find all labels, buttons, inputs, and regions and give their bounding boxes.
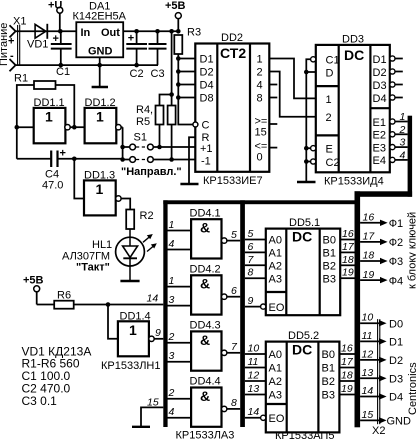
svg-text:DD4.4: DD4.4: [190, 376, 221, 388]
DD4.1 inputs: [168, 231, 192, 250]
svg-text:DD4.2: DD4.2: [190, 264, 221, 276]
svg-text:1: 1: [169, 275, 175, 287]
svg-text:4: 4: [169, 238, 175, 250]
svg-text:C3: C3: [151, 68, 165, 80]
svg-text:3: 3: [400, 137, 406, 149]
svg-text:DD1.2: DD1.2: [85, 97, 116, 109]
svg-text:5: 5: [248, 228, 254, 240]
svg-text:E3: E3: [373, 142, 386, 154]
bus labels 1 2 3 4: [399, 111, 406, 161]
DD3 pin labels left: [326, 55, 340, 170]
svg-text:18: 18: [341, 370, 353, 382]
svg-text:13: 13: [248, 383, 260, 395]
svg-text:D: D: [326, 68, 334, 80]
DD4.4 inputs: [168, 399, 192, 418]
svg-text:C1: C1: [326, 55, 340, 67]
bus horizontal main: [163, 200, 356, 204]
svg-text:DD2: DD2: [221, 32, 243, 44]
DD5.1 output pin numbers: [342, 228, 355, 279]
svg-text:8: 8: [257, 93, 263, 105]
svg-text:2: 2: [399, 124, 406, 136]
svg-text:S1: S1: [134, 132, 147, 144]
notes text block: [22, 344, 92, 408]
DD3 pin labels right: [373, 54, 387, 167]
bus vertical right upper: [408, 116, 413, 197]
DD5.2 output pin numbers: [341, 343, 354, 396]
svg-text:&: &: [200, 220, 210, 236]
svg-text:КР1533ЛА3: КР1533ЛА3: [176, 430, 235, 440]
diode VD1: [35, 24, 47, 39]
bus vertical right main: [355, 191, 361, 427]
svg-text:8: 8: [248, 267, 254, 279]
regulator DA1: [76, 22, 123, 57]
svg-text:DC: DC: [292, 342, 312, 358]
svg-text:EO: EO: [269, 302, 285, 314]
svg-text:+U: +U: [48, 0, 62, 12]
svg-text:DD4.3: DD4.3: [190, 320, 221, 332]
wire to DD1.4 input: [108, 305, 118, 339]
svg-text:11: 11: [362, 330, 373, 342]
DD4.2 output wire: [227, 296, 240, 298]
wire C4 node to DD1.3 input: [74, 159, 84, 199]
svg-text:E1: E1: [373, 117, 386, 129]
connector X2 double line: [378, 319, 380, 424]
wire R4 bottom to +1 row: [159, 125, 161, 148]
svg-text:Ф3: Ф3: [389, 256, 403, 268]
DD3 C1 inversion circle: [311, 57, 316, 62]
switch S1: [130, 144, 154, 162]
capacitor C2: [126, 31, 147, 65]
terminal +5B top: [175, 13, 181, 32]
buffer DD5.1: [266, 229, 340, 316]
svg-text:DD1.3: DD1.3: [84, 170, 115, 182]
svg-text:DC: DC: [292, 229, 312, 245]
svg-text:19: 19: [363, 269, 375, 281]
svg-text:12: 12: [362, 348, 374, 360]
DD4.4 output wire: [227, 408, 240, 410]
ground below HL1: [120, 280, 139, 282]
terminal +5B lower: [34, 286, 55, 305]
NAND gate DD4.3: [191, 331, 221, 370]
wire +5B rail to R4 R5: [160, 31, 174, 105]
wire VD1 node to DA1 In: [60, 30, 76, 32]
svg-text:17: 17: [342, 241, 355, 253]
LED arrows: [143, 234, 157, 252]
resistor R4: [156, 106, 164, 125]
svg-text:R4,: R4,: [136, 104, 153, 116]
svg-text:4: 4: [169, 406, 175, 418]
svg-text:A0: A0: [269, 235, 282, 247]
DD3 C2 inversion circle: [311, 159, 316, 164]
DD5.2 input pin numbers: [248, 343, 260, 419]
DD4.1 output circle: [222, 238, 227, 243]
svg-text:14: 14: [248, 406, 260, 418]
svg-text:+: +: [60, 148, 66, 160]
svg-text:+1: +1: [200, 143, 213, 155]
wire DD1.3 out to R2: [121, 199, 130, 210]
svg-text:КР1533ЛН1: КР1533ЛН1: [101, 360, 161, 372]
svg-text:&: &: [200, 276, 210, 292]
NAND gate DD4.1: [191, 219, 221, 258]
svg-text:17: 17: [363, 231, 376, 243]
decoder DD3: [316, 45, 390, 172]
resistor R5: [168, 106, 176, 125]
DD5.2 output wires to bus: [339, 354, 354, 395]
svg-text:HL1: HL1: [92, 239, 112, 251]
svg-text:12: 12: [248, 370, 260, 382]
wire DD2 out1 to DD3 in1: [269, 59, 316, 99]
svg-text:C2: C2: [130, 68, 144, 80]
svg-text:3: 3: [169, 350, 175, 362]
svg-text:B3: B3: [323, 273, 336, 285]
labels D0-D4 GND: [387, 318, 412, 427]
svg-text:A3: A3: [269, 273, 282, 285]
svg-text:16: 16: [341, 343, 353, 355]
svg-text:Out: Out: [101, 27, 120, 39]
svg-text:15: 15: [362, 409, 374, 421]
svg-text:R2: R2: [140, 210, 154, 222]
inverter DD1.4: [118, 321, 149, 356]
svg-text:E2: E2: [373, 130, 386, 142]
capacitor C4: [17, 127, 123, 167]
svg-text:B3: B3: [322, 390, 335, 402]
svg-text:0: 0: [257, 152, 263, 164]
inverter DD1.1: [34, 108, 66, 143]
svg-text:Ф4: Ф4: [389, 275, 403, 287]
svg-text:DD1.1: DD1.1: [34, 97, 65, 109]
svg-text:+5В: +5В: [23, 275, 44, 287]
DD1.3 output circle: [116, 196, 121, 201]
wire DD2 R pin to ground: [189, 137, 195, 183]
svg-text:1: 1: [400, 111, 406, 123]
svg-text:D2: D2: [389, 355, 403, 367]
svg-text:+: +: [128, 33, 134, 45]
svg-text:B0: B0: [323, 235, 336, 247]
node R4R5 rail top: [169, 29, 174, 34]
svg-text:9: 9: [248, 295, 254, 307]
svg-text:B1: B1: [322, 363, 335, 375]
DD1.2 output circle: [116, 125, 121, 130]
capacitor C3: [149, 31, 167, 65]
svg-text:GND: GND: [88, 46, 113, 58]
svg-text:1: 1: [169, 219, 175, 231]
svg-text:3: 3: [169, 294, 175, 306]
svg-text:15: 15: [255, 127, 267, 139]
svg-text:DD4.1: DD4.1: [190, 208, 221, 220]
svg-text:B0: B0: [322, 349, 335, 361]
svg-text:"Такт": "Такт": [76, 262, 110, 274]
svg-text:+5В: +5В: [165, 0, 186, 12]
svg-text:DD3: DD3: [342, 34, 364, 46]
bus vertical left: [163, 200, 167, 427]
label R4, R5: [136, 104, 153, 128]
wire pin15 ground to bus: [141, 407, 163, 426]
svg-text:13: 13: [362, 367, 374, 379]
DD4.1 output wire: [227, 240, 240, 242]
svg-text:D8: D8: [200, 93, 214, 105]
wire DA1 Out to +5B node: [123, 30, 178, 32]
DD4.2 output circle: [222, 294, 227, 299]
ground below DD3: [297, 181, 316, 183]
svg-text:R1: R1: [14, 73, 28, 85]
svg-text:D3: D3: [373, 80, 387, 92]
node R5 on -1 row: [169, 157, 174, 162]
svg-text:к блоку ключей: к блоку ключей: [407, 212, 416, 289]
inverter DD1.2: [85, 108, 117, 143]
wire D8: [178, 97, 195, 99]
svg-text:10: 10: [362, 312, 374, 324]
svg-text:In: In: [81, 27, 91, 39]
svg-text:D1: D1: [200, 54, 214, 66]
svg-text:СТ2: СТ2: [220, 45, 246, 61]
svg-text:1: 1: [257, 54, 263, 66]
capacitor C1: [51, 31, 72, 65]
bus horizontal right: [355, 191, 413, 197]
node at VD1 cathode: [58, 29, 63, 34]
svg-text:B1: B1: [323, 248, 336, 260]
NAND gate DD4.4: [191, 388, 221, 427]
DD5.2 pin labels: [269, 349, 335, 425]
svg-text:1: 1: [45, 109, 53, 125]
DD3 E1-E4 outputs to bus: [390, 119, 408, 163]
ground at DD2 R: [180, 183, 198, 185]
svg-text:16: 16: [342, 228, 354, 240]
svg-text:D4: D4: [373, 93, 387, 105]
LED HL1: [116, 229, 145, 281]
svg-text:-: -: [10, 50, 14, 62]
svg-text:A0: A0: [269, 349, 282, 361]
svg-text:19: 19: [341, 383, 353, 395]
svg-text:КР1533ИД4: КР1533ИД4: [324, 176, 384, 188]
svg-text:B2: B2: [323, 261, 336, 273]
connector X1: [10, 25, 20, 71]
DD4.4 output circle: [222, 406, 227, 411]
svg-text:E: E: [326, 144, 333, 156]
svg-text:2: 2: [326, 112, 332, 124]
wire D1: [178, 58, 195, 60]
inverter DD1.3: [84, 180, 116, 215]
wire X1 pin1 to VD1: [16, 30, 61, 32]
svg-text:5: 5: [231, 229, 237, 241]
svg-text:D1: D1: [389, 337, 403, 349]
DD5.1 pin labels: [269, 235, 336, 314]
svg-text:X2: X2: [372, 425, 385, 437]
DD5.1 EO inversion circle: [261, 304, 266, 309]
wire R1 right lead: [56, 85, 75, 127]
svg-text:14: 14: [362, 385, 374, 397]
svg-text:D2: D2: [200, 67, 214, 79]
wire D4: [178, 84, 195, 86]
svg-text:A2: A2: [269, 376, 282, 388]
DD5.1 output wires to bus: [340, 240, 354, 279]
resistor R1: [34, 81, 56, 89]
node DD1.4 tap: [106, 302, 111, 307]
svg-text:8: 8: [231, 397, 237, 409]
DD3 output circles D1-D4: [390, 56, 403, 100]
svg-text:-1: -1: [201, 155, 211, 167]
svg-text:Centronics: Centronics: [407, 362, 416, 415]
wire R3 bottom rail to DD2 preset pins: [177, 54, 179, 98]
svg-text:14: 14: [147, 293, 159, 305]
svg-text:DD1.4: DD1.4: [120, 311, 151, 323]
DD5.1 input wires: [245, 240, 266, 307]
node R4 on +1 row: [157, 145, 162, 150]
DD4.2 inputs: [168, 287, 192, 306]
wire R1 left lead: [17, 85, 34, 127]
svg-text:2: 2: [168, 387, 175, 399]
svg-text:C: C: [202, 120, 210, 132]
wire S1 row1 to DD2 +1: [153, 146, 195, 148]
svg-text:R5: R5: [136, 116, 150, 128]
DD1.1 output circle: [65, 125, 70, 130]
svg-text:2: 2: [257, 67, 263, 79]
svg-text:4: 4: [400, 149, 406, 161]
DD5.2 EO inversion circle: [261, 415, 266, 420]
svg-text:A1: A1: [269, 248, 282, 260]
svg-text:B2: B2: [322, 376, 335, 388]
svg-text:D2: D2: [373, 67, 387, 79]
resistor R2: [126, 210, 134, 230]
svg-text:C2: C2: [326, 157, 340, 169]
svg-text:A1: A1: [269, 363, 282, 375]
svg-text:C3 0.1: C3 0.1: [22, 394, 58, 408]
DD4.3 inputs: [168, 343, 192, 362]
svg-text:КР1533ИЕ7: КР1533ИЕ7: [203, 175, 263, 187]
wire DD2 out2 to DD3 in2: [269, 72, 316, 117]
svg-text:+: +: [8, 36, 14, 48]
DD2 pin labels right: [255, 54, 268, 164]
svg-text:15: 15: [147, 397, 159, 409]
svg-text:E4: E4: [373, 155, 386, 167]
wire DD1.4 out to bus: [154, 338, 163, 340]
svg-text:"Направл.": "Направл.": [121, 166, 182, 178]
svg-text:1: 1: [96, 181, 104, 197]
svg-text:D3: D3: [389, 373, 403, 385]
svg-text:&: &: [200, 332, 210, 348]
node C4 right: [72, 157, 77, 162]
svg-text:+: +: [53, 33, 59, 45]
ground below DA1: [92, 86, 108, 88]
wire DD3 control rail to ground: [304, 59, 316, 181]
wire DA1 GND down: [99, 57, 101, 86]
bus vertical middle: [240, 200, 245, 427]
ground at pin15: [132, 426, 150, 428]
buffer DD5.2: [266, 342, 340, 433]
output arrows D0-D4 GND: [360, 320, 387, 424]
DD1.4 output circle: [149, 336, 154, 341]
svg-text:D4: D4: [389, 392, 403, 404]
svg-text:Ф1: Ф1: [389, 218, 403, 230]
svg-text:VD1: VD1: [27, 39, 48, 51]
wire bottom rail: [16, 64, 158, 66]
svg-text:47.0: 47.0: [42, 180, 63, 192]
node C2 bottom: [134, 63, 139, 68]
wire DD1.2 out: [121, 126, 123, 128]
svg-text:6: 6: [248, 241, 254, 253]
terminal +U: [57, 7, 63, 31]
svg-text:11: 11: [248, 356, 259, 368]
labels Ф1-Ф4: [389, 218, 403, 287]
DD4.3 output circle: [222, 350, 227, 355]
svg-text:К142ЕН5А: К142ЕН5А: [73, 11, 127, 23]
svg-text:R3: R3: [187, 27, 201, 39]
svg-text:1: 1: [326, 94, 332, 106]
svg-text:D1: D1: [373, 54, 387, 66]
DD5.2 input wires: [245, 354, 266, 418]
node C1 bottom: [59, 63, 64, 68]
wire DD1.1 input: [17, 126, 34, 128]
svg-text:EO: EO: [269, 413, 285, 425]
wire S1 left poles from DD1.2 output: [122, 127, 124, 159]
node +5B R3: [176, 29, 181, 34]
svg-text:10: 10: [248, 343, 260, 355]
DD3 E inversion circle: [311, 146, 316, 151]
wire R6 to bus pin14: [74, 304, 164, 306]
svg-text:17: 17: [341, 356, 354, 368]
wire D8 node down to C pin: [178, 98, 193, 125]
node DA1 GND on rail: [97, 63, 102, 68]
svg-text:КР1533АП5: КР1533АП5: [275, 430, 334, 440]
svg-text:X1: X1: [13, 16, 26, 28]
wire DD1.1 out to DD1.2 in: [70, 126, 84, 128]
svg-text:18: 18: [363, 250, 375, 262]
DD4.3 output wire: [227, 352, 240, 354]
svg-text:D4: D4: [200, 80, 214, 92]
svg-text:C1: C1: [56, 66, 70, 78]
svg-text:1: 1: [96, 109, 104, 125]
svg-text:6: 6: [231, 285, 237, 297]
wire R5 bottom to -1 row: [171, 125, 173, 160]
DD2 output stubs 4 8 >=15 <=0: [269, 85, 277, 148]
output arrows Ф1-Ф4: [360, 220, 388, 284]
svg-text:2: 2: [168, 331, 175, 343]
svg-text:DD5.2: DD5.2: [288, 330, 319, 342]
svg-text:&: &: [200, 388, 210, 404]
svg-text:GND: GND: [387, 416, 412, 428]
node C3 top: [155, 29, 160, 34]
pin numbers 16-19 of Ф outputs: [363, 212, 376, 281]
svg-text:A3: A3: [269, 390, 282, 402]
svg-text:4: 4: [257, 80, 263, 92]
svg-text:19: 19: [342, 267, 354, 279]
counter DD2: [195, 44, 269, 172]
svg-text:A2: A2: [269, 261, 282, 273]
NAND gate DD4.2: [191, 275, 221, 314]
DD2 pin labels left: [200, 54, 214, 168]
pin numbers 10-15 of X2: [362, 312, 374, 421]
wire S1 row2 to DD2 -1: [153, 159, 195, 161]
wire D2: [178, 71, 195, 73]
svg-text:DD5.1: DD5.1: [289, 217, 320, 229]
DD2 C pin inversion circle: [193, 122, 198, 127]
resistor R3: [174, 35, 182, 54]
svg-text:Ф2: Ф2: [389, 237, 403, 249]
svg-text:D0: D0: [389, 318, 403, 330]
svg-text:9: 9: [155, 327, 161, 339]
svg-text:R6: R6: [57, 290, 71, 302]
DD5.1 input pin numbers: [248, 228, 255, 307]
svg-text:1: 1: [129, 322, 137, 338]
resistor R6: [54, 301, 73, 309]
svg-text:18: 18: [342, 254, 354, 266]
svg-text:16: 16: [363, 212, 375, 224]
node C2 top: [134, 29, 139, 34]
svg-text:DC: DC: [344, 47, 364, 63]
